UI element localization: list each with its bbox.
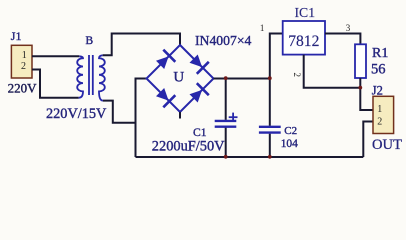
svg-text:2: 2 <box>21 61 26 72</box>
wire J1 pin2 to transformer primary bottom <box>32 70 79 98</box>
wire secondary top to bridge top vertex <box>103 34 180 56</box>
svg-text:IN4007×4: IN4007×4 <box>195 33 252 48</box>
svg-text:1: 1 <box>22 50 27 61</box>
svg-text:1: 1 <box>377 104 382 115</box>
J1 body <box>11 45 32 78</box>
wire J2 pin2 to bottom rail <box>363 122 373 158</box>
connector J2 <box>372 84 394 134</box>
C2 top plate <box>259 126 281 128</box>
svg-text:2: 2 <box>292 73 302 78</box>
diode top-left arm <box>156 50 175 69</box>
capacitor C2 <box>259 79 281 158</box>
svg-text:7812: 7812 <box>288 33 319 50</box>
bridge diamond outline <box>147 45 214 112</box>
J2 body <box>373 96 394 133</box>
wire IC1 pin1 input <box>270 34 283 79</box>
svg-text:IC1: IC1 <box>295 5 316 20</box>
diode bottom-left arm <box>156 88 175 107</box>
IC1 body <box>283 21 325 55</box>
C2 bottom lead <box>269 134 271 157</box>
junction at C2 on bottom rail <box>268 155 272 159</box>
svg-text:J1: J1 <box>11 29 22 43</box>
svg-text:R1: R1 <box>372 46 388 61</box>
wire bridge left vertex to bottom rail <box>136 79 147 158</box>
junction at C1 on bottom rail <box>224 155 228 159</box>
regulator IC1 <box>283 5 325 55</box>
wire bridge right vertex to C2 node <box>214 78 270 80</box>
primary winding <box>77 56 83 98</box>
svg-text:3: 3 <box>346 23 351 33</box>
svg-text:1: 1 <box>260 23 265 33</box>
capacitor C1 <box>215 79 238 158</box>
svg-text:C1: C1 <box>193 126 207 139</box>
secondary winding <box>99 55 105 100</box>
svg-text:220V/15V: 220V/15V <box>46 106 107 122</box>
wire IC1 pin3 output to R1 <box>325 34 360 45</box>
svg-text:U: U <box>173 70 184 86</box>
wire R1 bottom to node <box>359 78 361 88</box>
wire IC1 pin2 ground to node <box>304 55 361 88</box>
svg-text:B: B <box>86 35 94 47</box>
diode top-right arm <box>190 55 209 74</box>
bridge rectifier U <box>147 45 214 112</box>
resistor R1 <box>355 44 366 78</box>
wire node to J2 pin1 <box>360 88 373 110</box>
svg-text:2200uF/50V: 2200uF/50V <box>152 139 225 155</box>
wire bottom rail <box>136 156 364 158</box>
junction at C2 top node <box>268 76 272 80</box>
transformer B <box>77 35 105 100</box>
svg-text:56: 56 <box>371 61 386 77</box>
connector J1 <box>11 29 32 78</box>
svg-text:OUT: OUT <box>372 137 402 153</box>
wire J1 pin1 to transformer primary top <box>32 55 79 57</box>
C1 plus sign <box>232 113 234 121</box>
junction at C1 top node <box>224 76 228 80</box>
diode bottom-right arm <box>190 83 209 102</box>
core line right <box>92 55 94 95</box>
C2 bottom plate <box>259 131 281 133</box>
C1 bottom plate <box>215 125 237 127</box>
wire secondary bottom jog <box>103 101 136 123</box>
svg-text:104: 104 <box>281 138 298 150</box>
svg-text:C2: C2 <box>284 125 297 137</box>
C2 top lead <box>269 79 271 126</box>
wire bridge bottom vertex stub <box>179 112 181 119</box>
C1 bottom lead <box>225 128 227 158</box>
C1 top plate <box>215 120 237 122</box>
core line left <box>88 55 90 95</box>
svg-text:220V: 220V <box>8 80 37 95</box>
junction at R1 bottom node <box>358 86 362 90</box>
svg-text:2: 2 <box>377 116 382 127</box>
C1 top lead <box>225 79 227 120</box>
